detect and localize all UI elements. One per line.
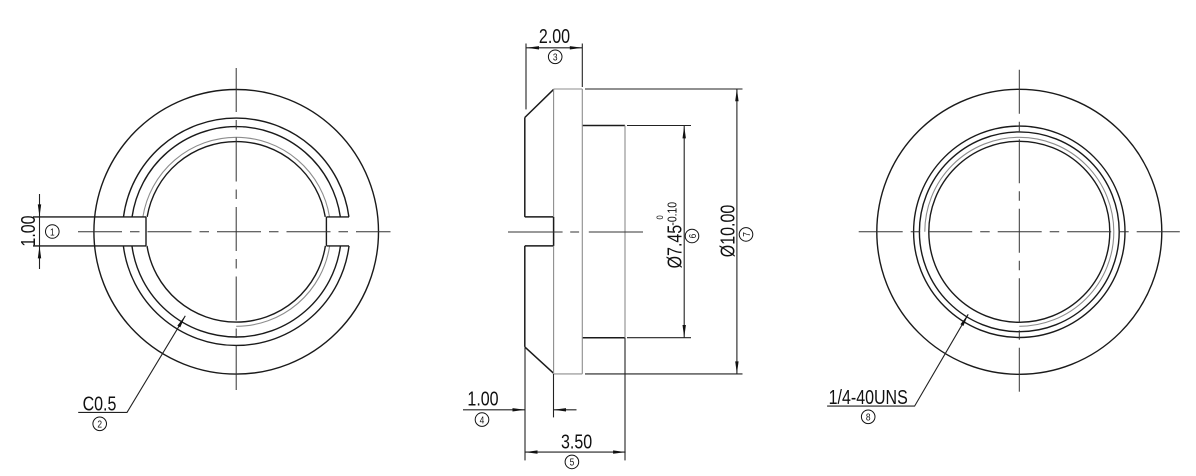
svg-text:6: 6 [687, 234, 699, 239]
svg-text:0: 0 [654, 215, 665, 219]
svg-text:1.00: 1.00 [17, 215, 39, 246]
svg-text:-0.10: -0.10 [665, 202, 679, 226]
svg-text:8: 8 [866, 412, 871, 424]
svg-text:1/4-40UNS: 1/4-40UNS [829, 387, 908, 409]
svg-text:1: 1 [50, 226, 55, 238]
svg-text:3: 3 [553, 52, 558, 64]
svg-text:3.50: 3.50 [561, 431, 592, 453]
svg-text:2: 2 [97, 419, 102, 431]
svg-text:Ø10.00: Ø10.00 [717, 205, 739, 257]
svg-text:C0.5: C0.5 [83, 393, 117, 415]
svg-text:4: 4 [480, 415, 485, 427]
svg-text:2.00: 2.00 [539, 25, 570, 47]
svg-text:Ø7.45: Ø7.45 [664, 225, 686, 269]
svg-text:7: 7 [741, 232, 753, 237]
svg-text:1.00: 1.00 [467, 388, 498, 410]
svg-text:5: 5 [570, 457, 575, 469]
